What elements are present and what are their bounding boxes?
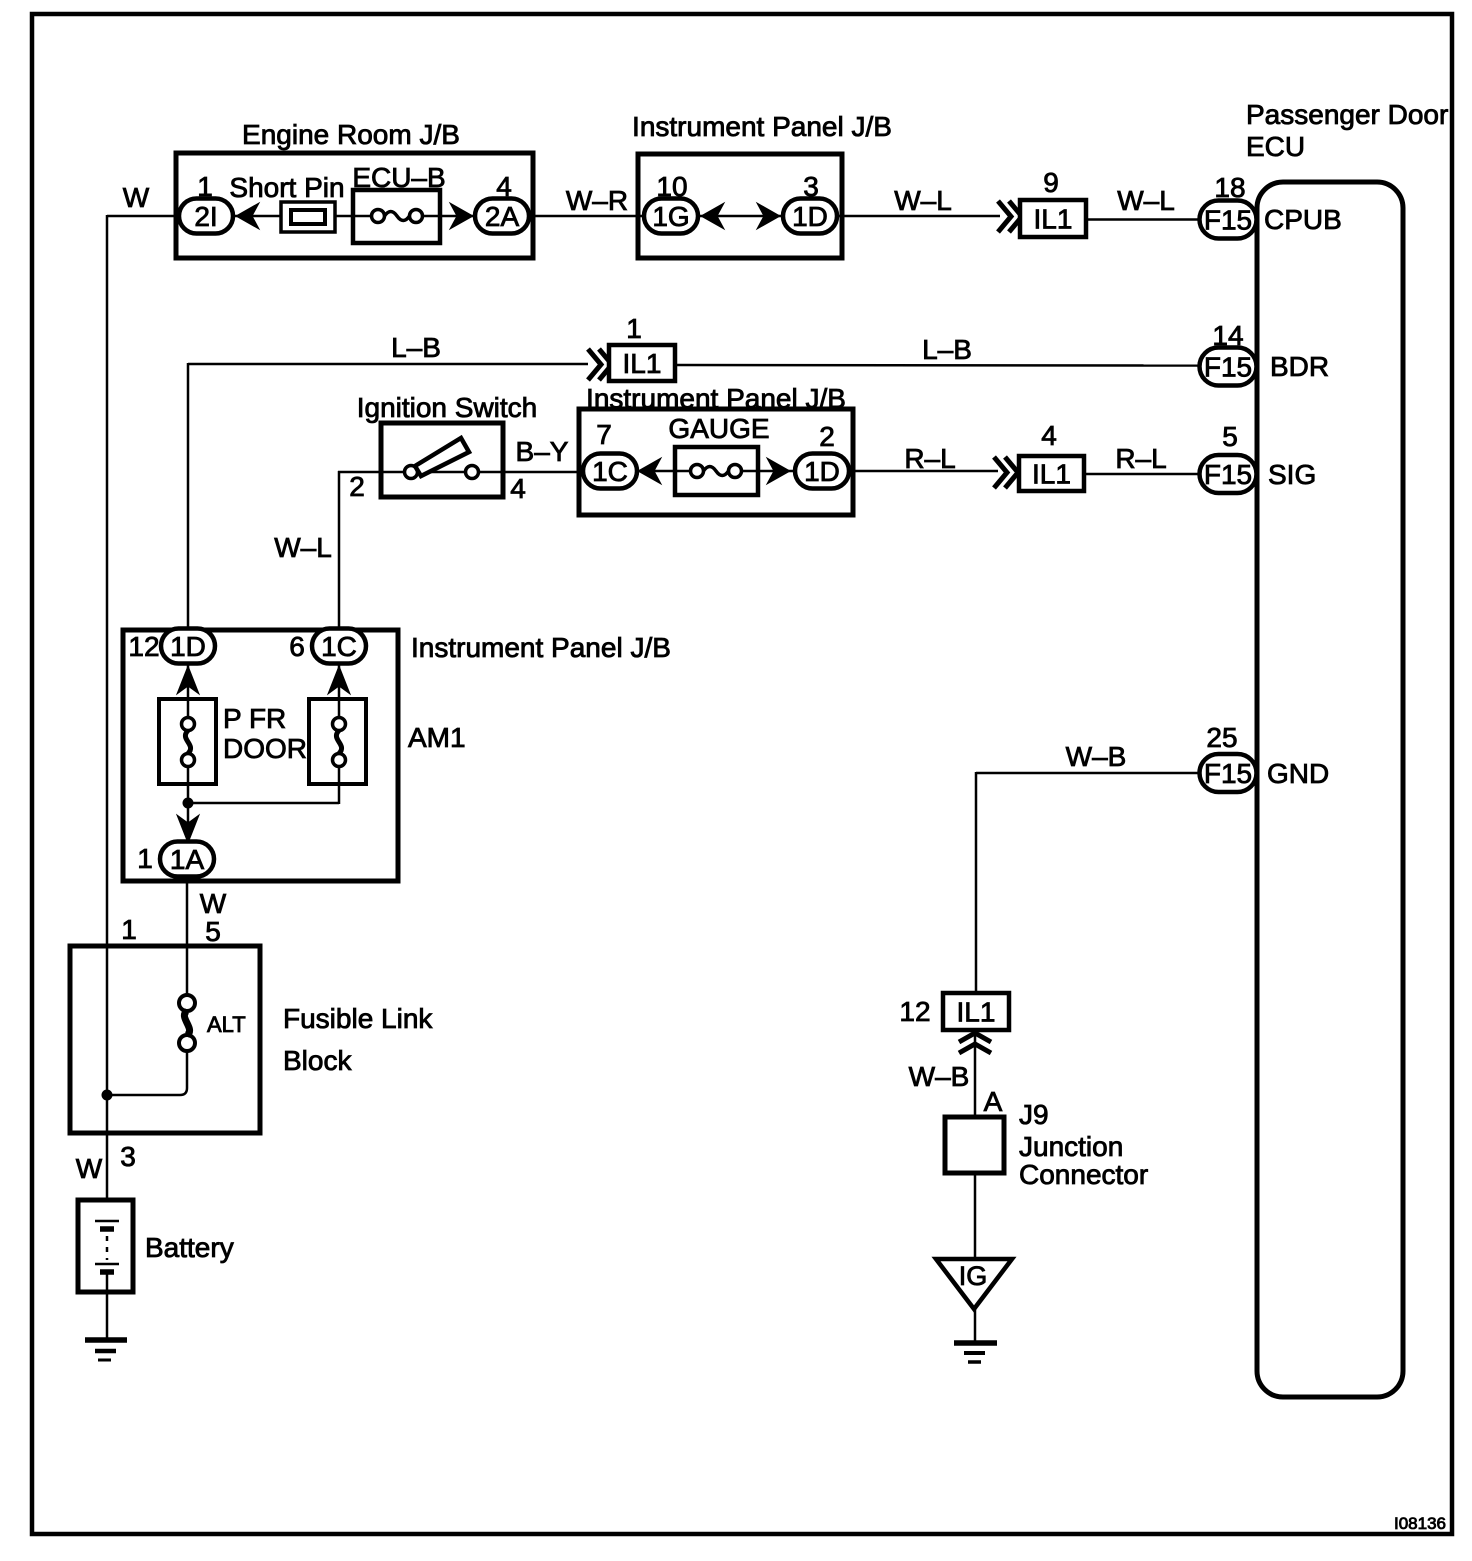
svg-text:1C: 1C bbox=[321, 631, 357, 662]
svg-text:2: 2 bbox=[349, 471, 365, 502]
svg-text:Short Pin: Short Pin bbox=[229, 172, 344, 203]
wire R-L from IL1 to ECU pin 5 bbox=[1084, 473, 1201, 476]
svg-text:1C: 1C bbox=[592, 456, 628, 487]
junction chevron row1 bbox=[998, 201, 1022, 232]
pin F15 BDR bbox=[1200, 348, 1330, 386]
svg-text:DOOR: DOOR bbox=[223, 733, 307, 764]
Instrument Panel J/B top box bbox=[632, 111, 892, 258]
svg-text:W–L: W–L bbox=[274, 532, 332, 563]
fuse GAUGE bbox=[668, 413, 769, 495]
svg-text:1: 1 bbox=[121, 914, 137, 945]
pin 5 label bbox=[1222, 421, 1238, 452]
connector 1G bbox=[644, 199, 698, 234]
svg-text:1D: 1D bbox=[170, 631, 206, 662]
svg-text:9: 9 bbox=[1043, 167, 1059, 198]
svg-text:L–B: L–B bbox=[922, 334, 972, 365]
svg-text:IL1: IL1 bbox=[623, 348, 662, 379]
junction connector J9 bbox=[945, 1099, 1148, 1190]
pin F15 CPUB bbox=[1200, 201, 1342, 239]
svg-text:W: W bbox=[123, 182, 150, 213]
svg-text:F15: F15 bbox=[1204, 352, 1252, 383]
connector IL1 row1 bbox=[1020, 200, 1086, 237]
junction chevron row3 bbox=[994, 457, 1018, 488]
svg-text:Instrument Panel J/B: Instrument Panel J/B bbox=[632, 111, 892, 142]
wire risers inside Instrument Panel J/B mid-left bbox=[188, 663, 339, 719]
connector IL1 row3 bbox=[1019, 456, 1084, 491]
wire W-B from IL1 12 to J9 junction connector bbox=[974, 1028, 977, 1119]
pin 4 label ignition bbox=[510, 473, 526, 504]
junction node and link to AM1 fuse bottom bbox=[183, 766, 340, 809]
Fusible Link Block box bbox=[70, 946, 433, 1133]
svg-text:GND: GND bbox=[1267, 758, 1329, 789]
wire inside Engine Room J/B row1 bbox=[233, 215, 476, 218]
pin 25 label bbox=[1206, 722, 1237, 753]
pin 1 label fusible bbox=[121, 914, 137, 945]
svg-text:W: W bbox=[200, 888, 227, 919]
wire label R-L second bbox=[1115, 443, 1166, 474]
svg-text:5: 5 bbox=[205, 916, 221, 947]
connector 1C gauge bbox=[583, 454, 637, 489]
svg-text:A: A bbox=[984, 1086, 1003, 1117]
wire L-B from 1D riser to IL1 connector 1 bbox=[188, 363, 588, 632]
svg-text:1: 1 bbox=[626, 313, 642, 344]
wire W from battery column to Engine Room J/B 2I, row 1 bbox=[107, 215, 181, 1201]
wire label W below 1A bbox=[200, 888, 227, 919]
svg-text:1D: 1D bbox=[792, 201, 828, 232]
svg-text:B–Y: B–Y bbox=[516, 436, 569, 467]
svg-text:CPUB: CPUB bbox=[1264, 204, 1342, 235]
svg-text:W: W bbox=[76, 1153, 103, 1184]
svg-text:AM1: AM1 bbox=[408, 722, 466, 753]
wire label L-B bbox=[391, 332, 441, 363]
Ignition Switch bbox=[357, 392, 538, 497]
Instrument Panel J/B gauge box bbox=[579, 383, 853, 515]
pin 1 label IL1 bbox=[626, 313, 642, 344]
svg-text:Instrument Panel J/B: Instrument Panel J/B bbox=[586, 383, 846, 414]
svg-text:4: 4 bbox=[510, 473, 526, 504]
figure number I08136 bbox=[1394, 1514, 1446, 1533]
arrow down into 1A bbox=[177, 815, 199, 843]
svg-text:Junction: Junction bbox=[1019, 1131, 1123, 1162]
wire label R-L bbox=[904, 443, 955, 474]
connector 1D bbox=[783, 199, 837, 234]
fuse ECU-B bbox=[352, 162, 445, 243]
pin A label bbox=[984, 1086, 1003, 1117]
wire label W-B bottom bbox=[909, 1061, 970, 1092]
wire label W-L bbox=[894, 185, 952, 216]
svg-text:BDR: BDR bbox=[1270, 351, 1329, 382]
svg-text:R–L: R–L bbox=[904, 443, 955, 474]
svg-text:Block: Block bbox=[283, 1045, 352, 1076]
fuse AM1 bbox=[309, 699, 466, 784]
arrow up into 1D bbox=[177, 666, 199, 694]
pin 6 label bbox=[289, 631, 305, 662]
wire inside Instrument Panel J/B gauge row bbox=[636, 470, 797, 473]
pin 5 label fusible bbox=[205, 916, 221, 947]
wire W-L from IL1 to ECU pin 18 bbox=[1086, 218, 1200, 221]
wire label W-L second bbox=[1117, 185, 1175, 216]
wire W-B from ECU pin 25 GND down to IL1 connector 12 bbox=[976, 772, 1201, 996]
wire label W-L riser bbox=[274, 532, 332, 563]
pin 18 label bbox=[1214, 172, 1245, 203]
svg-text:IL1: IL1 bbox=[1032, 459, 1071, 490]
svg-text:Ignition Switch: Ignition Switch bbox=[357, 392, 538, 423]
wire R-L from 1D to IL1 connector 4 bbox=[847, 470, 998, 473]
pin F15 SIG bbox=[1200, 455, 1317, 493]
arrow into 1D bbox=[757, 203, 780, 229]
svg-text:Connector: Connector bbox=[1019, 1159, 1148, 1190]
junction chevron row2 bbox=[588, 349, 612, 380]
svg-text:1A: 1A bbox=[170, 844, 205, 875]
svg-text:GAUGE: GAUGE bbox=[668, 413, 769, 444]
svg-text:4: 4 bbox=[1041, 420, 1057, 451]
svg-text:F15: F15 bbox=[1204, 205, 1252, 236]
svg-text:2: 2 bbox=[819, 421, 835, 452]
svg-text:F15: F15 bbox=[1204, 459, 1252, 490]
battery bbox=[78, 1200, 234, 1341]
svg-text:W–L: W–L bbox=[894, 185, 952, 216]
svg-text:R–L: R–L bbox=[1115, 443, 1166, 474]
wire B-Y ignition switch to GAUGE 1C bbox=[503, 471, 585, 474]
connector IL1 bottom bbox=[943, 993, 1009, 1030]
svg-text:2I: 2I bbox=[194, 201, 217, 232]
wire from J9 to IG connector bbox=[974, 1171, 977, 1260]
svg-text:W–R: W–R bbox=[566, 185, 628, 216]
pin 2 label ignition bbox=[349, 471, 365, 502]
svg-text:IG: IG bbox=[959, 1261, 988, 1291]
svg-text:Battery: Battery bbox=[145, 1232, 234, 1263]
wire inside ignition switch bbox=[381, 471, 503, 474]
wire W-L from 1D to IL1 connector 9 bbox=[836, 215, 1000, 218]
svg-text:1: 1 bbox=[137, 843, 153, 874]
svg-text:F15: F15 bbox=[1204, 758, 1252, 789]
pin 3 label bbox=[803, 171, 819, 202]
arrow into 2A bbox=[450, 203, 473, 229]
svg-text:6: 6 bbox=[289, 631, 305, 662]
wire from P FR DOOR fuse to junction and 1A bbox=[187, 766, 190, 843]
svg-text:W–L: W–L bbox=[1117, 185, 1175, 216]
pin 1 label bbox=[197, 171, 213, 202]
pin 3 label bbox=[120, 1141, 136, 1172]
wire from ALT bottom to junction on battery feed bbox=[102, 1050, 188, 1101]
svg-text:P FR: P FR bbox=[223, 703, 286, 734]
svg-text:ECU: ECU bbox=[1246, 131, 1305, 162]
pin 1 label 1A bbox=[137, 843, 153, 874]
Short Pin bbox=[229, 172, 344, 232]
svg-text:L–B: L–B bbox=[391, 332, 441, 363]
svg-text:1D: 1D bbox=[804, 456, 840, 487]
svg-text:W–B: W–B bbox=[1066, 741, 1127, 772]
svg-text:W–B: W–B bbox=[909, 1061, 970, 1092]
svg-text:1G: 1G bbox=[652, 201, 689, 232]
svg-text:2A: 2A bbox=[485, 201, 520, 232]
connector 2A bbox=[475, 199, 529, 234]
pin 9 label bbox=[1043, 167, 1059, 198]
Instrument Panel J/B mid-left box bbox=[123, 630, 671, 881]
connector 2I bbox=[179, 199, 233, 234]
ground battery bbox=[85, 1340, 127, 1360]
connector IG triangle bbox=[936, 1259, 1012, 1309]
Passenger Door ECU box bbox=[1246, 99, 1448, 1397]
wire W-L riser to ignition switch bbox=[338, 471, 381, 631]
svg-text:7: 7 bbox=[596, 419, 612, 450]
Engine Room J/B box bbox=[176, 119, 533, 258]
svg-text:J9: J9 bbox=[1019, 1099, 1049, 1130]
wire label W bbox=[123, 182, 150, 213]
wire label L-B second bbox=[922, 334, 972, 365]
connector 1A bbox=[160, 842, 214, 877]
svg-text:ALT: ALT bbox=[207, 1012, 246, 1037]
wire from IG triangle to ground bbox=[974, 1308, 977, 1341]
wire label B-Y bbox=[516, 436, 569, 467]
wire W from 1A into Fusible Link Block to ALT bbox=[186, 876, 189, 997]
pin 2 label gauge bbox=[819, 421, 835, 452]
pin 4 label bbox=[496, 171, 512, 202]
svg-text:5: 5 bbox=[1222, 421, 1238, 452]
svg-text:25: 25 bbox=[1206, 722, 1237, 753]
wire W-R from Engine Room J/B to Instrument Panel J/B bbox=[528, 215, 645, 218]
pin F15 GND bbox=[1200, 754, 1330, 792]
wire label W-B bbox=[1066, 741, 1127, 772]
pin 10 label bbox=[656, 171, 687, 202]
connector 1C mid bbox=[312, 629, 366, 664]
connector 1D mid bbox=[161, 629, 215, 664]
connector IL1 row2 bbox=[609, 345, 675, 381]
arrow into 1G bbox=[701, 203, 724, 229]
svg-text:12: 12 bbox=[128, 631, 159, 662]
svg-text:Instrument Panel J/B: Instrument Panel J/B bbox=[411, 632, 671, 663]
svg-text:Passenger Door: Passenger Door bbox=[1246, 99, 1448, 130]
svg-text:12: 12 bbox=[899, 996, 930, 1027]
svg-text:IL1: IL1 bbox=[1034, 204, 1073, 235]
arrow into 1C bbox=[638, 458, 661, 484]
svg-text:Fusible Link: Fusible Link bbox=[283, 1003, 433, 1034]
junction chevron up bbox=[959, 1033, 991, 1053]
fuse P FR DOOR bbox=[159, 699, 307, 784]
connector 1D gauge bbox=[795, 454, 849, 489]
arrow up into 1C bbox=[328, 666, 350, 694]
svg-text:I08136: I08136 bbox=[1394, 1514, 1446, 1533]
pin 14 label bbox=[1212, 320, 1243, 351]
pin 4 label IL1 row3 bbox=[1041, 420, 1057, 451]
fusible link ALT bbox=[179, 995, 246, 1051]
pin 12 label bbox=[128, 631, 159, 662]
arrow into 2I bbox=[236, 203, 259, 229]
wire inside Instrument Panel J/B row1 bbox=[697, 215, 784, 218]
wire label W-R bbox=[566, 185, 628, 216]
svg-text:3: 3 bbox=[120, 1141, 136, 1172]
svg-text:Engine Room J/B: Engine Room J/B bbox=[242, 119, 460, 150]
wire label W battery bbox=[76, 1153, 103, 1184]
pin 12 label IL1 bottom bbox=[899, 996, 930, 1027]
svg-text:SIG: SIG bbox=[1268, 459, 1316, 490]
ground IG bbox=[954, 1343, 997, 1362]
arrow into 1D gauge bbox=[767, 458, 790, 484]
pin 7 label bbox=[596, 419, 612, 450]
svg-text:IL1: IL1 bbox=[957, 997, 996, 1028]
wire L-B from IL1 to ECU pin 14 bbox=[675, 364, 1201, 367]
